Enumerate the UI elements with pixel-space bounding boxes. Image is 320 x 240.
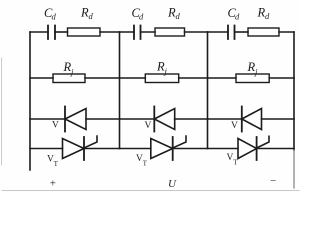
wire row4 section3	[208, 148, 239, 150]
label Rj 1	[63, 60, 75, 77]
wire	[85, 77, 120, 79]
svg-text:d: d	[89, 11, 94, 21]
label Rj 2	[156, 60, 168, 77]
label VT 1	[47, 155, 59, 169]
wire	[179, 77, 208, 79]
capacitor C3 (Cd)	[228, 26, 235, 40]
svg-text:−: −	[270, 175, 276, 187]
resistor R5 (Rj)	[145, 74, 178, 83]
wire	[269, 77, 294, 79]
label Cd 3	[228, 6, 241, 22]
wire	[175, 118, 208, 120]
resistor R4 (Rj)	[53, 74, 85, 83]
wire	[185, 31, 208, 33]
diode V2	[154, 107, 174, 132]
resistor R6 (Rj)	[236, 74, 269, 83]
capacitor C2 (Cd)	[134, 26, 141, 40]
scan artifact bottom edge	[2, 190, 299, 192]
capacitor C1 (Cd)	[48, 26, 55, 40]
wire	[141, 31, 156, 33]
label Cd 1	[44, 6, 57, 22]
svg-text:T: T	[233, 160, 238, 167]
wire	[100, 31, 120, 33]
thyristor Q1 (VT)	[63, 136, 98, 160]
wire row3 section2	[120, 118, 155, 120]
wire	[235, 31, 249, 33]
resistor R2 (Rd)	[155, 28, 185, 36]
wire row4 section2	[120, 148, 151, 150]
wire row2 section1	[30, 77, 53, 79]
thyristor Q3 (VT)	[238, 136, 269, 160]
label Rd 2	[167, 6, 181, 22]
label VT 2	[136, 154, 148, 168]
wire	[262, 118, 295, 120]
label Rd 1	[80, 6, 94, 22]
svg-text:d: d	[139, 12, 144, 22]
svg-text:d: d	[235, 12, 240, 22]
svg-text:d: d	[265, 11, 270, 21]
wire row4 section1	[30, 148, 63, 150]
label Rj 3	[247, 60, 259, 77]
svg-text:j: j	[70, 67, 74, 77]
diode V3	[242, 107, 262, 132]
right rail (top part)	[293, 32, 295, 150]
middle rail node C	[207, 32, 209, 149]
svg-text:U: U	[168, 178, 177, 190]
diode V1	[65, 107, 86, 132]
wire	[84, 148, 120, 150]
svg-text:d: d	[176, 11, 181, 21]
svg-text:d: d	[52, 12, 57, 22]
svg-text:T: T	[143, 161, 148, 168]
wire	[173, 148, 208, 150]
wire row2 section3	[208, 77, 237, 79]
svg-text:j: j	[254, 67, 258, 77]
wire	[55, 31, 68, 33]
scan artifact left edge	[1, 58, 3, 165]
svg-text:V: V	[145, 121, 152, 131]
svg-text:+: +	[50, 178, 56, 190]
wire row1 section2	[120, 31, 135, 33]
wire row3 section1	[30, 118, 65, 120]
wire row1 section1	[30, 31, 48, 33]
svg-text:V: V	[52, 121, 59, 131]
left rail	[29, 32, 31, 170]
wire	[86, 118, 120, 120]
wire	[257, 148, 294, 150]
wire	[279, 31, 294, 33]
wire row2 section2	[120, 77, 146, 79]
right rail (lower faded part)	[293, 150, 295, 188]
label VT 3	[227, 153, 239, 167]
wire row3 section3	[208, 118, 242, 120]
wire row1 section3	[208, 31, 229, 33]
middle rail node B	[119, 32, 121, 149]
resistor R3 (Rd)	[248, 28, 279, 36]
svg-text:T: T	[54, 161, 59, 168]
label Cd 2	[132, 6, 145, 22]
thyristor Q2 (VT)	[151, 136, 186, 160]
label Rd 3	[257, 6, 271, 22]
resistor R1 (Rd)	[68, 28, 101, 36]
svg-text:V: V	[231, 121, 238, 131]
